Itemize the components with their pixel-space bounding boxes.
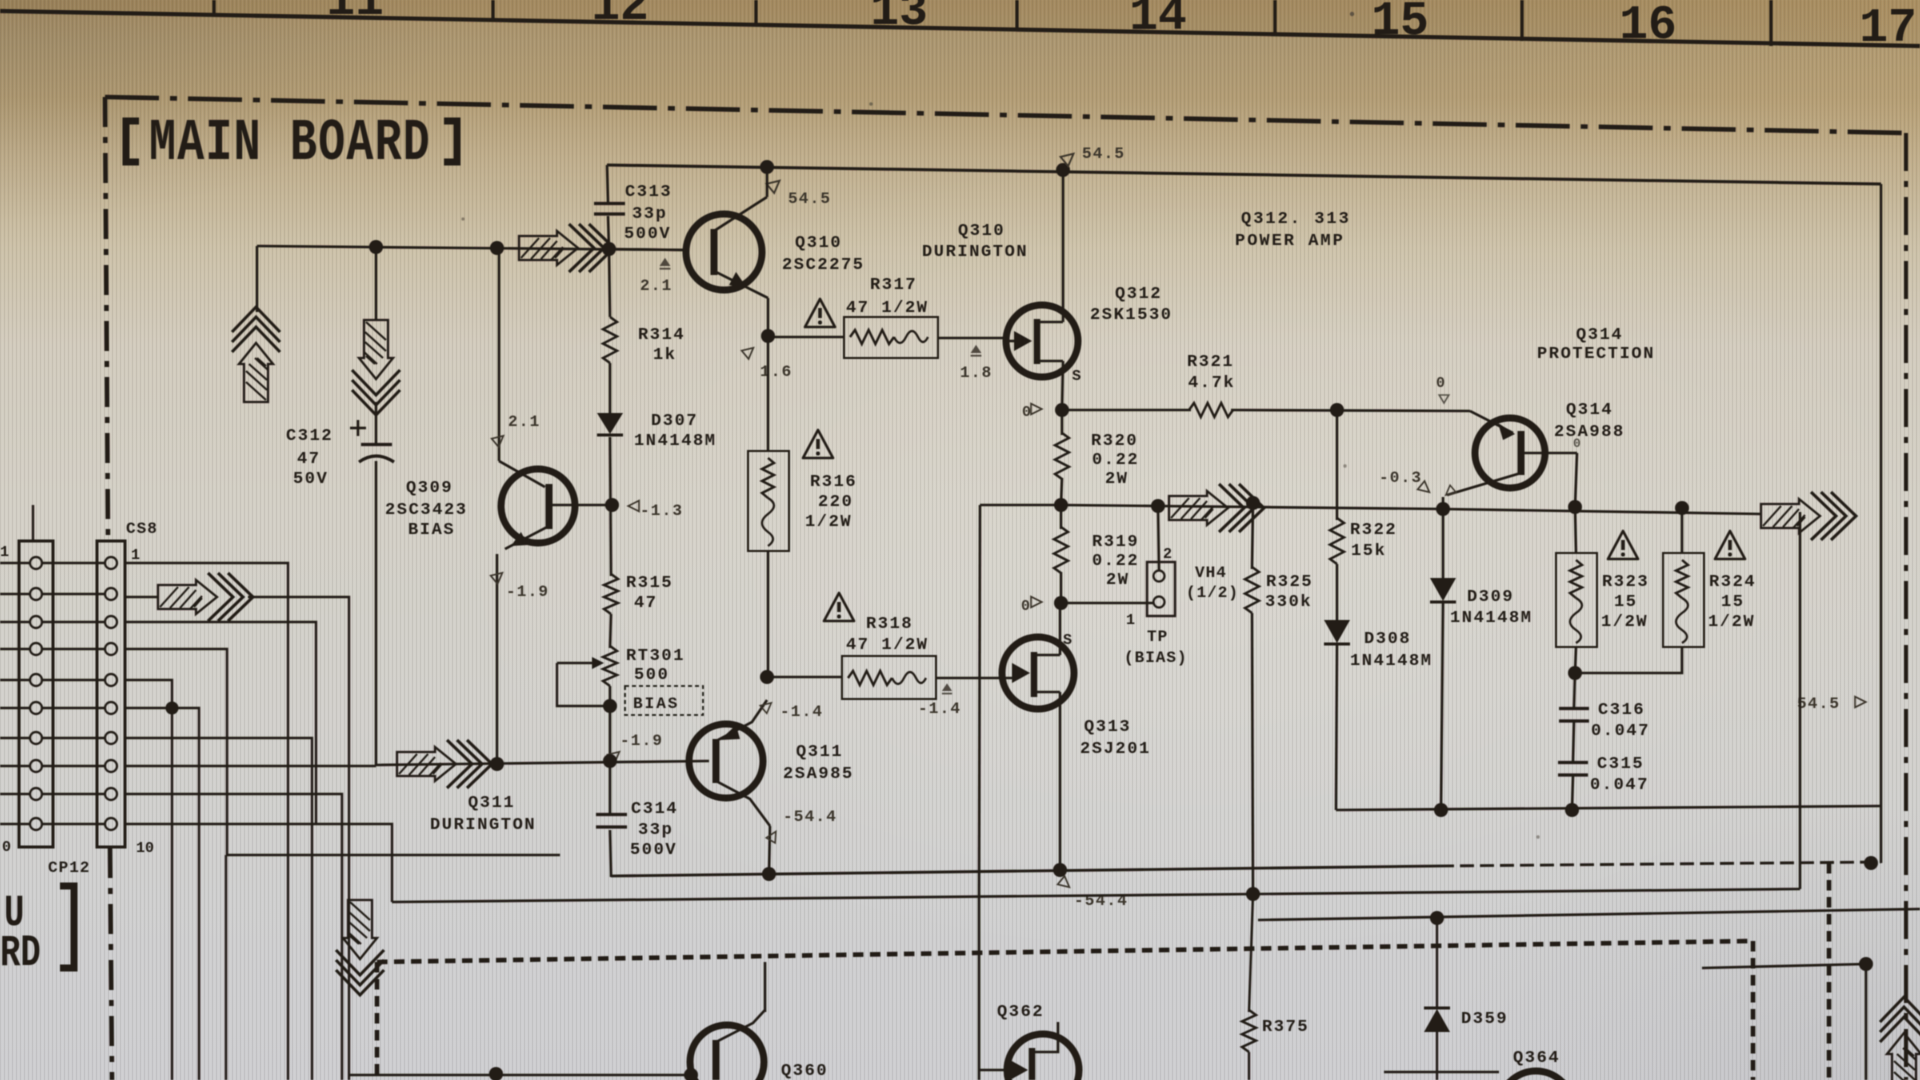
- voltage -1.4 (right): [942, 683, 952, 693]
- svg-text:15: 15: [1721, 593, 1745, 612]
- connector CS8 left box: [19, 541, 53, 847]
- svg-text:1: 1: [0, 544, 9, 561]
- svg-text:(BIAS): (BIAS): [1124, 649, 1188, 667]
- node junction x1866: [1859, 957, 1873, 971]
- voltage -1.3: [628, 501, 639, 512]
- warning triangle (R318): [824, 593, 854, 621]
- ruler band bottom edge: [0, 11, 1920, 46]
- resistor R320: [1055, 433, 1069, 479]
- svg-text:500V: 500V: [630, 841, 677, 860]
- voltage -54.4 (Q311): [766, 829, 780, 843]
- svg-text:11: 11: [326, 0, 384, 29]
- svg-text:330k: 330k: [1265, 593, 1312, 612]
- partial board label RD: [0, 928, 41, 978]
- boxed resistor R323: [1575, 507, 1576, 553]
- wire Q360 base row: [349, 1074, 691, 1076]
- mosfet Q313: [1002, 637, 1074, 709]
- wire feedback row y899: [392, 889, 1800, 902]
- wire pin2 route: [125, 596, 158, 598]
- dashed box left edge: [375, 962, 380, 1080]
- svg-text:13: 13: [870, 0, 928, 39]
- partial board label bracket: [60, 886, 74, 968]
- svg-text:1.6: 1.6: [760, 363, 792, 381]
- main board dash-dot border right: [1904, 133, 1908, 1080]
- svg-text:BIAS: BIAS: [633, 695, 679, 713]
- node junction output row: [1054, 498, 1068, 512]
- resistor R315: [604, 574, 618, 614]
- svg-text:Q312: Q312: [1115, 285, 1162, 304]
- warning triangle (R324): [1715, 531, 1745, 559]
- wire input row y246: [257, 246, 686, 250]
- bus arrow up (left): [232, 307, 280, 402]
- svg-text:33p: 33p: [638, 821, 673, 840]
- wire Q360 base stub: [495, 1074, 497, 1080]
- node junction rail/right: [1864, 856, 1878, 870]
- ruler tick 7: [1769, 0, 1772, 46]
- ruler tick 4: [1015, 0, 1018, 30]
- CS8 pin circles row 1: [30, 557, 42, 569]
- dashed box top edge: [377, 941, 1753, 962]
- resistor R319: [1054, 527, 1068, 573]
- node junction R323 top: [1568, 500, 1582, 514]
- node junction C312/input row: [369, 240, 383, 254]
- svg-text:0: 0: [1021, 598, 1030, 615]
- capacitor C312 (polarized): [361, 443, 392, 446]
- svg-text:R315: R315: [626, 574, 673, 593]
- wire -54.4 rail: [611, 866, 1440, 876]
- warning triangle (R316): [803, 430, 833, 458]
- resistor R314: [603, 317, 617, 363]
- wire stubs row 10: [0, 823, 30, 825]
- node junction RT301 wiper: [603, 699, 617, 713]
- node junction Q311 collector/rail: [762, 867, 776, 881]
- svg-text:R324: R324: [1709, 573, 1756, 592]
- svg-text:-1.9: -1.9: [620, 732, 663, 750]
- resistor R322: [1330, 518, 1344, 564]
- svg-text:S: S: [1072, 368, 1081, 385]
- bus arrow up (bottom right): [1880, 997, 1920, 1080]
- transistor Q310: [686, 214, 762, 290]
- node junction Q312 source: [1055, 403, 1069, 417]
- wire TP pin1: [1061, 602, 1153, 605]
- bus arrow (bias row): [397, 740, 492, 788]
- wire pin9 route: [125, 794, 342, 1080]
- svg-text:50V: 50V: [293, 470, 328, 489]
- svg-text:R323: R323: [1602, 573, 1649, 592]
- node junction Q309 collector/input row: [490, 241, 504, 255]
- svg-text:12: 12: [591, 0, 649, 34]
- svg-text:15: 15: [1614, 593, 1638, 612]
- node junction pin5/pin6: [166, 702, 179, 715]
- partial board label U: [4, 888, 24, 938]
- node junction Q311 emitter / R316/R318: [760, 670, 774, 684]
- svg-text:C316: C316: [1598, 701, 1645, 720]
- svg-text:RD: RD: [0, 928, 41, 978]
- ruler band shading: [0, 0, 1920, 46]
- main bias row wire y=763: [125, 765, 376, 768]
- voltage -54.4 (rail): [1058, 876, 1073, 891]
- Q313 drain lead: [1034, 691, 1060, 694]
- svg-text:-1.4: -1.4: [780, 703, 823, 721]
- node junction R325/feedback row: [1246, 887, 1260, 901]
- svg-text:2W: 2W: [1105, 470, 1129, 489]
- C312 plus sign: [350, 427, 366, 430]
- wire stubs row 1: [0, 562, 30, 564]
- boxed resistor R316: [748, 451, 789, 551]
- svg-text:Q362: Q362: [997, 1003, 1044, 1022]
- Q314 collector: [1447, 473, 1521, 495]
- voltage -1.9 (Q309 emitter): [491, 569, 506, 584]
- svg-text:0.22: 0.22: [1092, 451, 1139, 470]
- node junction R322 top: [1330, 403, 1344, 417]
- wire R319: [1060, 505, 1063, 529]
- wire x199 drop: [198, 766, 200, 1080]
- svg-text:10: 10: [136, 840, 154, 857]
- svg-text:C313: C313: [625, 183, 672, 202]
- wire stubs row 3: [0, 621, 30, 623]
- node junction top rail / Q312 drain: [1056, 163, 1070, 177]
- ruler tick 5: [1273, 0, 1276, 36]
- wire pin6 route: [125, 708, 199, 766]
- Q309 base wire: [549, 504, 612, 507]
- node junction VH4 pin2: [1151, 499, 1165, 513]
- svg-text:33p: 33p: [632, 205, 667, 224]
- svg-text:47 1/2W: 47 1/2W: [846, 299, 929, 318]
- wire pin10 route: [125, 824, 392, 902]
- node junction C316 top: [1568, 666, 1582, 680]
- svg-text:0: 0: [1436, 375, 1445, 392]
- svg-text:R325: R325: [1266, 573, 1313, 592]
- svg-text:0.22: 0.22: [1092, 552, 1139, 571]
- svg-text:Q313: Q313: [1084, 718, 1131, 737]
- svg-text:0: 0: [2, 839, 11, 856]
- svg-text:C315: C315: [1597, 755, 1644, 774]
- wire stubs row 6: [0, 707, 30, 709]
- ruler tick 1: [212, 0, 215, 14]
- wire C316: [1574, 673, 1575, 707]
- voltage 2.1 (Q310 base): [660, 258, 671, 269]
- voltage 0 (Q312 source): [1031, 404, 1042, 415]
- node junction Q313 source row: [1054, 596, 1068, 610]
- Q311 collector (bottom): [716, 781, 770, 826]
- svg-text:1/2W: 1/2W: [1601, 613, 1648, 632]
- mosfet Q312: [1006, 305, 1078, 377]
- svg-text:0.047: 0.047: [1591, 722, 1650, 741]
- diode D309: [1430, 578, 1456, 601]
- svg-text:PROTECTION: PROTECTION: [1537, 345, 1655, 364]
- wire R325: [1252, 503, 1253, 569]
- svg-text:14: 14: [1129, 0, 1187, 44]
- dashed box right edge: [1751, 941, 1756, 1080]
- capacitor C313: [594, 202, 625, 205]
- svg-text:0: 0: [1022, 404, 1031, 421]
- wire Q309 collector vertical: [498, 248, 501, 461]
- resistor R375: [1249, 894, 1253, 1012]
- wire x1866 drop: [1865, 964, 1868, 1080]
- node junction D309/rail: [1434, 803, 1448, 817]
- wire pin3 route: [125, 622, 316, 824]
- wire output row: [980, 504, 1061, 507]
- svg-text:Q311: Q311: [468, 794, 515, 813]
- wire Q313 source lead: [1059, 603, 1062, 655]
- Q310 collector: [714, 197, 767, 231]
- mosfet Q362: [1007, 1034, 1079, 1080]
- main board dash-dot border top: [105, 97, 1906, 133]
- wire R322 chain: [1336, 410, 1339, 520]
- potentiometer RT301: [603, 646, 617, 686]
- wire stubs row 4: [0, 648, 30, 650]
- wire R318 row: [768, 676, 842, 679]
- svg-text:R317: R317: [870, 276, 917, 295]
- Q312 drain lead: [1037, 321, 1063, 324]
- svg-text:16: 16: [1619, 0, 1677, 53]
- svg-text:1.8: 1.8: [960, 364, 992, 382]
- voltage 1.8: [971, 345, 982, 356]
- svg-text:2SA988: 2SA988: [1554, 423, 1625, 442]
- Q311 emitter (top, arrow): [716, 700, 767, 741]
- transistor Q309: [501, 469, 575, 543]
- node junction C315/rail: [1565, 803, 1579, 817]
- svg-text:47: 47: [297, 450, 321, 469]
- svg-text:17: 17: [1859, 2, 1917, 56]
- CS8 pin circles row 5: [30, 674, 42, 686]
- node junction output row / R325: [1246, 496, 1260, 510]
- svg-text:R322: R322: [1350, 521, 1397, 540]
- svg-text:Q311: Q311: [796, 743, 843, 762]
- svg-text:R320: R320: [1091, 432, 1138, 451]
- svg-text:TP: TP: [1147, 628, 1168, 646]
- svg-text:1N4148M: 1N4148M: [1350, 652, 1433, 671]
- wire pin7 route: [125, 738, 312, 1080]
- wire protection bottom rail: [1336, 806, 1881, 810]
- node junction Q360 base: [684, 1068, 698, 1080]
- wire y918 row: [1258, 909, 1920, 920]
- voltage -1.4 (left): [760, 699, 774, 713]
- svg-text:2.1: 2.1: [508, 413, 540, 431]
- node junction Q309 base / chain: [605, 498, 619, 512]
- transistor Q364 (partial): [1499, 1071, 1573, 1080]
- svg-text:MAIN BOARD: MAIN BOARD: [149, 109, 431, 177]
- voltage label 54.5 (left): [766, 176, 783, 193]
- capacitor C316: [1559, 707, 1589, 710]
- svg-text:D308: D308: [1364, 630, 1411, 649]
- svg-text:1: 1: [1126, 612, 1135, 629]
- wire D309: [1442, 509, 1445, 578]
- svg-text:Q314: Q314: [1566, 401, 1613, 420]
- svg-text:R314: R314: [638, 326, 685, 345]
- svg-text:POWER AMP: POWER AMP: [1235, 232, 1345, 251]
- CS8 pin circles row 6: [30, 702, 42, 714]
- voltage 1.6: [742, 344, 757, 359]
- svg-text:Q309: Q309: [406, 479, 453, 498]
- Q362 gate wire: [979, 1069, 1010, 1072]
- svg-text:DURINGTON: DURINGTON: [430, 816, 536, 835]
- wire stubs row 7: [0, 737, 30, 739]
- connector CS8 right box: [97, 541, 125, 847]
- svg-text:1/2W: 1/2W: [1708, 613, 1755, 632]
- MAIN BOARD title right bracket: [444, 121, 457, 162]
- Q314 emitter wire: [1470, 411, 1513, 433]
- CS8 pin circles row 3: [30, 616, 42, 628]
- wire R323 bottom: [1575, 647, 1576, 673]
- resistor R321: [1189, 403, 1233, 417]
- svg-text:500: 500: [634, 666, 669, 685]
- wire output drop x980: [979, 505, 980, 899]
- warning triangle (R317): [805, 299, 835, 327]
- svg-text:Q310: Q310: [958, 222, 1005, 241]
- node junction C313/input row: [602, 242, 616, 256]
- svg-text:R321: R321: [1187, 353, 1234, 372]
- capacitor C315: [1558, 761, 1588, 764]
- wire R320 chain: [1061, 410, 1064, 435]
- svg-text:-54.4: -54.4: [783, 808, 837, 826]
- wire C314 rail elbow: [610, 874, 613, 877]
- wire R324 bottom elbow: [1575, 647, 1682, 673]
- svg-text:2: 2: [1163, 546, 1172, 563]
- bus arrow down (bottom left): [336, 900, 384, 995]
- wire x226 drop: [225, 855, 227, 1080]
- svg-text:VH4: VH4: [1195, 564, 1227, 582]
- svg-text:47: 47: [634, 594, 658, 613]
- svg-text:-1.3: -1.3: [640, 502, 683, 520]
- wire feedback right riser x1800: [1799, 512, 1802, 889]
- wire C313 top elbow: [607, 165, 609, 249]
- bus arrow into C313 node: [519, 224, 614, 272]
- svg-text:-1.4: -1.4: [918, 700, 961, 718]
- voltage label 54.5 (right): [1060, 149, 1077, 166]
- svg-text:2SC3423: 2SC3423: [385, 501, 468, 520]
- warning triangle (R323): [1608, 531, 1638, 559]
- wire left end drop x257: [256, 246, 259, 312]
- wire VH4 pin2: [1158, 506, 1159, 570]
- transistor Q314: [1475, 418, 1545, 488]
- node junction R324 top: [1675, 501, 1689, 515]
- svg-text:0.047: 0.047: [1590, 776, 1649, 795]
- CS8 pin circles row 8: [30, 760, 42, 772]
- wire R321 row: [1062, 409, 1191, 412]
- svg-text:C312: C312: [286, 427, 333, 446]
- wire pin5 route: [125, 680, 172, 708]
- wire y966 segment: [1702, 964, 1866, 968]
- wire R317 row: [768, 336, 844, 339]
- svg-text:BIAS: BIAS: [408, 521, 455, 540]
- voltage -1.9 (bias node): [608, 748, 623, 763]
- wire pin4 route: [125, 649, 560, 855]
- node junction Q360 base row: [489, 1067, 503, 1080]
- svg-text:220: 220: [818, 493, 853, 512]
- ruler tick 3: [754, 0, 757, 25]
- svg-text:R375: R375: [1262, 1018, 1309, 1037]
- svg-text:1: 1: [131, 547, 140, 564]
- node junction Q313 drain/rail: [1053, 863, 1067, 877]
- svg-text:Q360: Q360: [781, 1062, 828, 1080]
- transistor Q311: [689, 724, 763, 798]
- svg-text:-1.9: -1.9: [506, 583, 549, 601]
- svg-text:500V: 500V: [624, 225, 671, 244]
- right box edge vertical: [1880, 184, 1883, 863]
- CS8 pin circles row 10: [30, 818, 42, 830]
- wire x172 drop: [171, 708, 173, 1080]
- paper specks: [1350, 12, 1354, 16]
- wire stubs row 8: [0, 765, 30, 767]
- diode D359: [1436, 918, 1438, 1007]
- Q310 emitter: [714, 271, 768, 298]
- fusible resistor R318 box: [842, 656, 936, 699]
- svg-text:54.5: 54.5: [788, 190, 831, 208]
- Q362 drain lead up: [1032, 1022, 1058, 1052]
- CS8 pin circles row 9: [30, 788, 42, 800]
- svg-text:D309: D309: [1467, 588, 1514, 607]
- diode D307: [597, 413, 623, 434]
- MAIN BOARD title text: [149, 109, 431, 177]
- capacitor C314: [596, 813, 627, 816]
- node junction top rail / Q310 collector: [760, 160, 774, 174]
- resistor R325: [1245, 567, 1259, 613]
- svg-text:CS8: CS8: [126, 520, 158, 538]
- CS8 pin circles row 7: [30, 732, 42, 744]
- svg-text:R316: R316: [810, 473, 857, 492]
- svg-text:D359: D359: [1461, 1010, 1508, 1029]
- connector VH4 box: [1147, 562, 1175, 616]
- svg-text:Q310: Q310: [795, 234, 842, 253]
- diode D308: [1324, 620, 1350, 643]
- wire pin1 route: [125, 563, 288, 1080]
- node junction Q309 emitter / row: [490, 757, 504, 771]
- CS8 pin circles row 2: [30, 588, 42, 600]
- svg-text:1N4148M: 1N4148M: [1450, 609, 1533, 628]
- svg-text:D307: D307: [651, 412, 698, 431]
- wire R316 chain: [767, 336, 770, 451]
- wire stubs row 5: [0, 679, 30, 681]
- svg-text:R318: R318: [866, 615, 913, 634]
- svg-text:1/2W: 1/2W: [805, 513, 852, 532]
- wire x610 R314/D307 chain: [609, 249, 610, 317]
- wire stub above CS8: [32, 505, 34, 541]
- svg-text:CP12: CP12: [48, 859, 90, 877]
- bus arrow down (C312 line): [375, 247, 378, 320]
- voltage 0 (Q313 source): [1031, 597, 1042, 608]
- svg-text:DURINGTON: DURINGTON: [922, 243, 1028, 262]
- svg-text:1N4148M: 1N4148M: [634, 432, 717, 451]
- svg-text:(1/2): (1/2): [1186, 584, 1239, 602]
- ruler tick 2: [491, 0, 494, 19]
- svg-text:2SJ201: 2SJ201: [1080, 740, 1151, 759]
- node junction Q314 collector/output row: [1436, 502, 1450, 516]
- svg-text:R319: R319: [1092, 533, 1139, 552]
- svg-text:-0.3: -0.3: [1379, 469, 1422, 487]
- ruler tick 6: [1520, 0, 1523, 41]
- svg-text:2SK1530: 2SK1530: [1090, 306, 1173, 325]
- voltage 2.1 (Q309 collector): [492, 432, 507, 447]
- svg-text:RT301: RT301: [626, 647, 685, 666]
- svg-text:47 1/2W: 47 1/2W: [846, 636, 929, 655]
- main board dash-dot border left: [105, 97, 108, 540]
- wire stubs row 9: [0, 793, 30, 795]
- Q309 emitter: [505, 526, 549, 549]
- wire C312 vertical: [375, 402, 378, 443]
- bus arrow (output row): [1169, 484, 1264, 532]
- MAIN BOARD title left bracket: [126, 121, 139, 162]
- svg-text:2SA985: 2SA985: [783, 765, 854, 784]
- svg-text:2W: 2W: [1106, 571, 1130, 590]
- Q314 base lead: [1521, 452, 1577, 455]
- CS8 pin circles row 4: [30, 643, 42, 655]
- svg-text:Q314: Q314: [1576, 326, 1623, 345]
- wire Q364 row: [1384, 1071, 1499, 1073]
- svg-text:Q312. 313: Q312. 313: [1241, 210, 1351, 229]
- node junction chain / row: [603, 754, 617, 768]
- svg-text:1k: 1k: [653, 346, 677, 365]
